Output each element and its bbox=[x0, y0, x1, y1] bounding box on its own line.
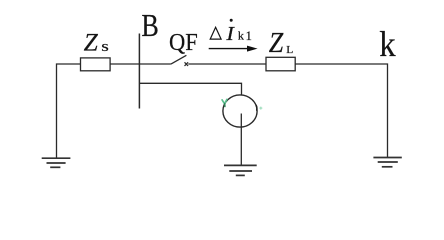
svg-text:k: k bbox=[238, 29, 244, 43]
svg-text:Z: Z bbox=[269, 26, 284, 59]
svg-text:s: s bbox=[101, 38, 109, 54]
svg-text:1: 1 bbox=[246, 29, 252, 43]
svg-text:L: L bbox=[286, 44, 293, 55]
svg-text:QF: QF bbox=[169, 29, 198, 56]
svg-text:B: B bbox=[141, 9, 158, 44]
svg-text:Z: Z bbox=[84, 27, 99, 56]
svg-text:k: k bbox=[379, 24, 396, 64]
